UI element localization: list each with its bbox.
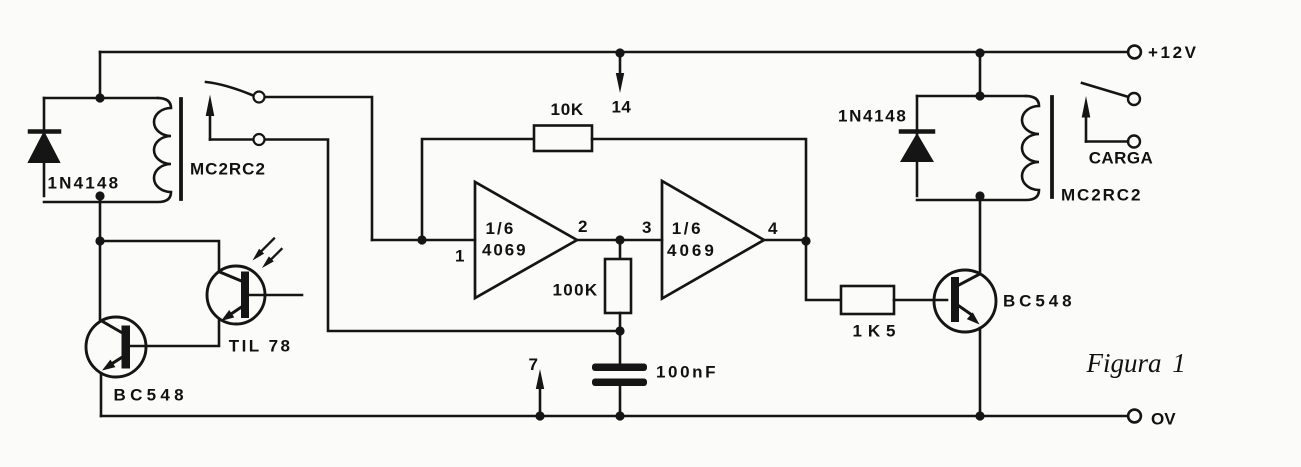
svg-text:CARGA: CARGA (1089, 149, 1154, 168)
transistor Q2 TIL78 circle (207, 266, 265, 324)
diode D1 1N4148 (left) triangle (29, 133, 59, 162)
transistor Q3 collector diagonal (959, 274, 980, 285)
relay coil MC2RC2 (right) top wire (917, 95, 1026, 98)
pin 7 arrow shaft (539, 390, 542, 416)
pin 14 node on rail (615, 48, 624, 57)
resistor R2 100K body (605, 259, 631, 313)
wire node1 up to 10K (422, 139, 534, 240)
svg-text:1: 1 (455, 247, 464, 266)
inverter U1B 1/6 4069 triangle (662, 181, 764, 299)
switch S2 actuation arrowhead (1082, 96, 1091, 118)
svg-text:1/6: 1/6 (486, 219, 516, 238)
switch S2 lever (1082, 83, 1127, 97)
node: relay left top junction (95, 93, 104, 102)
node: relay 2 top junction (975, 91, 984, 100)
svg-text:BC548: BC548 (1003, 292, 1075, 311)
TIL78 base lead (249, 294, 303, 297)
diode D2 1N4148 (right) lead (916, 96, 919, 196)
pin 14 arrowhead (616, 73, 624, 93)
relay coil MC2RC2 (left) coil loops (44, 98, 171, 202)
svg-text:1K5: 1K5 (853, 322, 902, 341)
node 4 junction (801, 236, 810, 245)
TIL78 light arrow 1 (258, 239, 274, 255)
svg-text:1N4148: 1N4148 (48, 174, 121, 193)
wire Q1 emitter to ground rail (100, 374, 103, 416)
node: rail to relay 2 (975, 48, 984, 57)
svg-text:14: 14 (612, 98, 632, 117)
resistor R3 1K5 body (841, 286, 894, 314)
terminal +12V (1128, 46, 1141, 59)
wire bottom rail 0V (101, 415, 1128, 418)
svg-text:TIL 78: TIL 78 (229, 337, 293, 356)
transistor Q1 base bar (122, 326, 131, 369)
wire 1K5 to Q3 base (894, 299, 947, 302)
node: 100K/C1 junction (615, 326, 624, 335)
diode D1 1N4148 (left) cathode bar (30, 129, 59, 134)
relay MC2RC2 (left) frame bar (179, 99, 183, 199)
wire Q3 collector up to relay 2 (979, 196, 982, 274)
svg-text:100K: 100K (553, 281, 599, 300)
svg-text:4069: 4069 (482, 241, 527, 260)
wire C1 to ground rail (619, 386, 622, 416)
transistor Q1 emitter arrowhead (102, 360, 115, 371)
TIL78 light arrow 2 (267, 249, 282, 264)
diode D2 1N4148 (right) triangle (900, 133, 934, 162)
wire branch to TIL78 collector (100, 241, 219, 272)
svg-text:1N4148: 1N4148 (838, 107, 907, 126)
wire S1 bottom contact right and down (265, 140, 619, 332)
wire top rail +12V (100, 51, 1128, 54)
wire S1 top contact to node 1 drop (265, 97, 372, 240)
switch S1 actuation arrowhead (206, 95, 215, 117)
node: relay 2 bottom junction (975, 191, 984, 200)
svg-text:10K: 10K (551, 100, 584, 119)
wire 10K right to node 4 (592, 139, 806, 241)
svg-text:4069: 4069 (667, 241, 717, 260)
wire left drop from rail to relay K1 (99, 52, 102, 98)
pin 7 node on rail (535, 411, 544, 420)
capacitor C1 100nF top plate (592, 364, 647, 372)
wire rail down to relay 2 (979, 53, 982, 96)
pin 14 arrow shaft (619, 53, 622, 73)
wire TIL78 emitter to Q1 base (130, 319, 219, 346)
switch S1 actuation arrow shaft (209, 112, 212, 140)
wire U1B output to node 4 (764, 239, 806, 242)
svg-text:4: 4 (768, 219, 778, 238)
transistor Q2 collector diagonal (219, 272, 241, 281)
svg-text:100nF: 100nF (656, 363, 718, 382)
transistor Q2 emitter arrowhead (221, 310, 234, 321)
diode D2 1N4148 (right) cathode bar (901, 129, 933, 134)
wire node 4 down to 1K5 (806, 241, 841, 300)
pin 7 arrowhead (536, 369, 544, 389)
diode D1 1N4148 (left) lead (43, 98, 46, 196)
transistor Q2 base bar (241, 272, 249, 319)
transistor Q1 BC548 (left) circle (86, 317, 146, 377)
wire relay bottom down to Q1 collector (99, 196, 102, 320)
transistor Q1 emitter diagonal (109, 357, 123, 366)
switch S2 CARGA top contact (1128, 93, 1140, 105)
svg-text:3: 3 (642, 218, 651, 237)
switch S1 bottom contact (254, 134, 265, 145)
transistor Q3 emitter diagonal (959, 306, 972, 315)
node: branch to TIL78 (95, 236, 104, 245)
svg-text:+12V: +12V (1148, 43, 1199, 62)
svg-text:OV: OV (1151, 410, 1176, 429)
transistor Q1 collector diagonal (101, 321, 123, 334)
resistor R1 10K body (534, 126, 592, 152)
svg-text:MC2RC2: MC2RC2 (1061, 186, 1142, 205)
transistor Q3 BC548 (right) circle (934, 270, 996, 332)
node: C1 ground junction (615, 411, 624, 420)
svg-text:Figura 1: Figura 1 (1086, 348, 1186, 378)
transistor Q3 base bar (951, 277, 959, 322)
wire node 1 into gate U1A (372, 239, 475, 242)
node: relay left bottom junction (95, 191, 104, 200)
wire node2 down to 100K (619, 240, 622, 259)
wire junction down to C1 (619, 331, 622, 364)
wire arrow base to S2 bottom contact (1086, 140, 1128, 143)
transistor Q2 emitter diagonal (228, 307, 242, 316)
node 2/3 junction (615, 235, 624, 244)
terminal 0V (1128, 410, 1141, 423)
node: Q3 emitter ground junction (975, 411, 984, 420)
svg-text:2: 2 (578, 217, 587, 236)
switch S2 CARGA bottom contact (1128, 136, 1140, 148)
switch S1 top contact (254, 92, 265, 103)
inverter U1A 1/6 4069 triangle (475, 182, 577, 298)
relay coil MC2RC2 (left) top wire (44, 97, 158, 100)
node 1 junction (417, 235, 426, 244)
svg-text:7: 7 (529, 355, 538, 374)
switch S2 actuation arrow shaft (1085, 117, 1088, 142)
svg-text:BC548: BC548 (114, 386, 188, 405)
wire 100K bottom to junction (619, 313, 622, 331)
wire U1A output to U1B input (577, 239, 662, 242)
relay MC2RC2 (right) frame bar (1050, 97, 1054, 197)
capacitor C1 100nF bottom plate (592, 379, 647, 387)
relay coil MC2RC2 (right) coil loops (917, 96, 1039, 200)
wire arrow base to bottom contact (210, 138, 253, 141)
svg-text:1/6: 1/6 (672, 219, 703, 238)
svg-text:MC2RC2: MC2RC2 (190, 160, 266, 179)
switch S1 lever (206, 82, 252, 95)
wire Q3 emitter to ground rail (979, 328, 982, 416)
transistor Q3 emitter arrowhead (967, 312, 980, 324)
